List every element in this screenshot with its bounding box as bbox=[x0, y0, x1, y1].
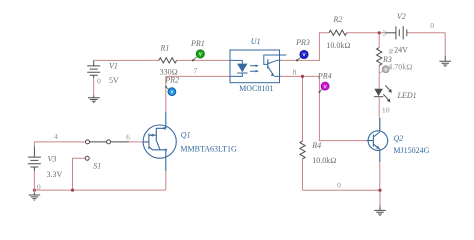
wire net5 V1 to R1 to U1 pin1 bbox=[94, 59, 230, 61]
wire net8 U1 pin right bottom to R4 and Q2 base bbox=[280, 76, 367, 140]
ground V1 bbox=[88, 95, 100, 102]
battery V1 bbox=[87, 60, 100, 78]
resistor R3 bbox=[377, 48, 382, 66]
svg-text:V: V bbox=[384, 67, 387, 72]
svg-text:V: V bbox=[302, 52, 305, 57]
wire net3 U1 right top to R2 bbox=[280, 33, 329, 61]
wire net10 LED1 to Q2 collector bbox=[378, 98, 381, 132]
wire R2 to V2 with R3 branch bbox=[347, 32, 386, 34]
wire V3 stubs bbox=[33, 142, 35, 190]
svg-text:4: 4 bbox=[54, 132, 58, 141]
svg-text:V: V bbox=[324, 84, 327, 89]
wire V1 to ground bbox=[93, 78, 95, 95]
svg-text:R4: R4 bbox=[311, 141, 321, 150]
Q1 collector junction dot bbox=[165, 149, 167, 151]
wire ground net left bbox=[34, 171, 165, 190]
wire net9 R3 to LED1 bbox=[378, 33, 380, 89]
svg-text:PR4: PR4 bbox=[317, 72, 332, 81]
svg-text:V: V bbox=[199, 52, 202, 57]
svg-text:5V: 5V bbox=[109, 76, 119, 85]
wire R4 branch vertical bbox=[302, 76, 304, 190]
U1 light arrows bbox=[250, 66, 256, 71]
wire ground net right bottom bbox=[303, 162, 381, 206]
U1 internal LED bbox=[230, 60, 248, 76]
transistor Q2 MJ15024G bbox=[367, 118, 388, 162]
U1 phototransistor bbox=[267, 59, 269, 68]
wire V3 ground stub bbox=[33, 190, 35, 193]
Q2 emitter arrow bbox=[376, 146, 380, 149]
probe gray unplaced bbox=[379, 66, 389, 73]
svg-text:V1: V1 bbox=[109, 62, 118, 71]
transistor Q1 MMBTA63LT1G bbox=[143, 112, 176, 171]
svg-text:U1: U1 bbox=[251, 37, 261, 46]
probe PR4 bbox=[319, 82, 330, 93]
svg-text:0: 0 bbox=[97, 77, 101, 86]
ground left bottom bbox=[29, 193, 41, 201]
probe PR3 bbox=[296, 51, 308, 62]
optocoupler U1 MOC8101 box bbox=[230, 50, 280, 83]
ground right bottom for Q2 bbox=[374, 206, 386, 216]
wire S1 lower throw to ground net bbox=[73, 158, 86, 190]
junction node R2-V2-R3 bbox=[378, 31, 381, 34]
svg-text:R1: R1 bbox=[160, 43, 170, 52]
junction node S1 ground bbox=[71, 189, 74, 192]
svg-text:PR2: PR2 bbox=[164, 76, 179, 85]
switch S1 bbox=[85, 140, 129, 160]
svg-text:10.0kΩ: 10.0kΩ bbox=[312, 156, 336, 165]
resistor R2 bbox=[329, 30, 347, 35]
svg-text:Q1: Q1 bbox=[181, 130, 191, 139]
svg-text:0: 0 bbox=[430, 21, 434, 30]
ground right top for V2 bbox=[439, 56, 451, 66]
wire net7 U1 pin2 to Q1 collector bbox=[166, 76, 230, 112]
LED1 emission arrows bbox=[383, 85, 389, 99]
svg-text:8: 8 bbox=[293, 67, 297, 76]
svg-text:R: R bbox=[388, 48, 394, 56]
resistor R1 bbox=[159, 58, 177, 63]
svg-text:V3: V3 bbox=[48, 155, 57, 164]
wire net6 S1 to Q1 base bbox=[129, 141, 143, 143]
battery V2 pin stub bbox=[386, 32, 396, 34]
probe PR1 bbox=[192, 50, 204, 62]
svg-text:0: 0 bbox=[337, 181, 341, 190]
wire V2 plus to ground right bbox=[407, 33, 445, 56]
probe PR2 bbox=[165, 86, 176, 96]
svg-text:V2: V2 bbox=[397, 12, 406, 21]
svg-text:3.3V: 3.3V bbox=[47, 170, 63, 179]
svg-text:MOC8101: MOC8101 bbox=[239, 84, 273, 93]
svg-text:Q2: Q2 bbox=[393, 134, 403, 143]
svg-text:3: 3 bbox=[382, 29, 386, 38]
svg-text:V: V bbox=[170, 89, 173, 94]
svg-text:S1: S1 bbox=[93, 161, 101, 170]
Q1 arrow T1 emitter bbox=[150, 134, 154, 137]
svg-text:PR1: PR1 bbox=[190, 39, 205, 48]
svg-text:7: 7 bbox=[194, 66, 198, 75]
svg-text:R2: R2 bbox=[333, 15, 343, 24]
junction node Q2 emitter ground bbox=[378, 189, 381, 192]
svg-text:0: 0 bbox=[37, 183, 41, 192]
wire net4 V3 to S1 bbox=[34, 141, 85, 143]
junction node V3 ground bbox=[33, 189, 36, 192]
battery V3 bbox=[28, 147, 41, 172]
svg-text:MMBTA63LT1G: MMBTA63LT1G bbox=[180, 145, 237, 154]
resistor R4 bbox=[300, 141, 305, 159]
svg-text:24V: 24V bbox=[394, 46, 408, 55]
svg-text:10: 10 bbox=[382, 106, 390, 115]
svg-text:LED1: LED1 bbox=[397, 91, 417, 100]
svg-text:6: 6 bbox=[126, 133, 130, 142]
svg-text:10.0kΩ: 10.0kΩ bbox=[326, 41, 350, 50]
svg-text:PR3: PR3 bbox=[295, 38, 310, 47]
svg-text:MJ15024G: MJ15024G bbox=[393, 146, 429, 155]
junction node net8 R4 bbox=[301, 75, 304, 78]
Q1 arrow T2 emitter bbox=[162, 127, 166, 130]
battery V2 bbox=[396, 26, 407, 39]
svg-text:4.70kΩ: 4.70kΩ bbox=[388, 63, 412, 72]
LED LED1 bbox=[374, 96, 383, 98]
